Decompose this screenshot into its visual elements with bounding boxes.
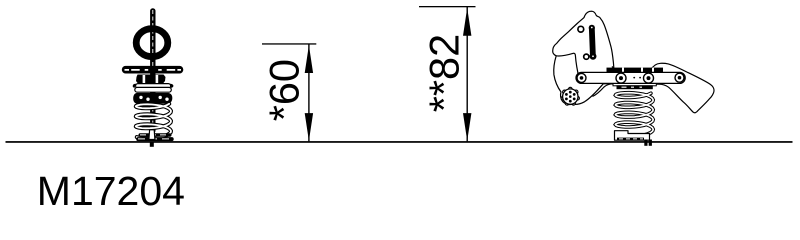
base plate (side) [615, 131, 650, 141]
dim **82 arrows [463, 8, 471, 36]
post centerline dashes [152, 10, 154, 133]
center post [150, 8, 155, 133]
svg-text:M17204: M17204 [37, 168, 185, 212]
spring coil (front) [136, 104, 171, 139]
dim *60 line [308, 44, 309, 141]
seat disc bands [136, 84, 171, 89]
anchor stub below ground [150, 142, 154, 147]
dim **82 line [467, 7, 468, 142]
footrest flower [561, 87, 579, 105]
head + neck + front leg silhouette [553, 11, 614, 104]
dim *60 tick [262, 43, 316, 44]
svg-text:**82: **82 [421, 34, 468, 112]
center anchor block [149, 130, 155, 140]
top ring (head loop) [136, 29, 168, 57]
main beam [576, 72, 685, 83]
eye [578, 26, 584, 32]
spring top bracket [613, 83, 656, 85]
dim *60 arrows [305, 45, 313, 73]
base plates [139, 133, 172, 137]
anchor stubs [644, 140, 647, 146]
ground line [6, 141, 793, 143]
mane bar [592, 28, 593, 56]
handlebar highlights [125, 69, 182, 71]
rear flank/wing [651, 63, 714, 112]
clamp block under bar [136, 75, 166, 84]
belly line [593, 84, 613, 97]
svg-text:*60: *60 [261, 59, 308, 121]
dim **82 tick [419, 6, 476, 7]
cheek / jaw interior line [556, 53, 580, 83]
footrest pods [133, 93, 172, 104]
jaw bolt ring [584, 54, 589, 59]
handlebar [122, 66, 184, 74]
beam pivots / bolts [577, 73, 586, 82]
serrated top plate [607, 68, 664, 73]
spring coil (side) [615, 93, 653, 137]
neck-to-plate line [612, 67, 614, 68]
